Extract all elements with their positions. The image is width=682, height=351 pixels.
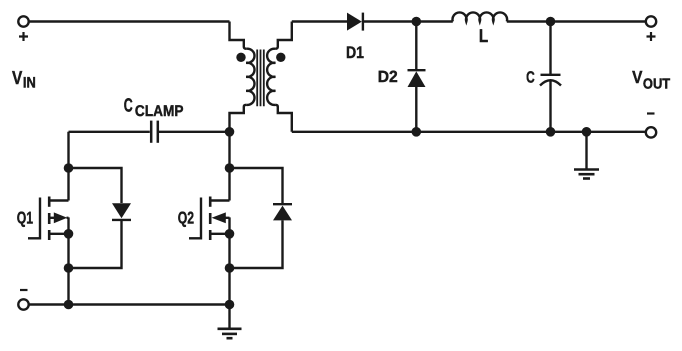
node Q1 source	[64, 229, 74, 239]
transformer T1 secondary winding	[267, 49, 275, 105]
wire primary top jog	[230, 22, 247, 49]
svg-text:OUT: OUT	[643, 76, 670, 92]
wire bottom input rail	[30, 303, 230, 305]
svg-text:V: V	[632, 67, 643, 87]
capacitor C	[540, 22, 561, 132]
svg-text:CLAMP: CLAMP	[135, 103, 184, 120]
node D1/D2 junction	[412, 17, 422, 27]
node L/C junction	[546, 17, 556, 27]
node output ground junction	[582, 127, 592, 137]
inductor L	[453, 12, 508, 21]
wire Q2 drain vertical	[228, 132, 230, 201]
capacitor CCLAMP	[151, 121, 158, 143]
label Q2	[178, 209, 194, 228]
label VOUT	[632, 67, 670, 92]
svg-text:D1: D1	[346, 43, 364, 62]
node Q1 drain / diode top	[64, 163, 74, 173]
label L	[479, 25, 488, 46]
transistor Q1	[28, 197, 69, 241]
svg-text:Q2: Q2	[178, 209, 194, 228]
transistor Q2	[189, 197, 230, 241]
ground input	[218, 305, 242, 339]
svg-text:C: C	[526, 69, 535, 87]
svg-text:V: V	[12, 67, 23, 88]
node Q2 diode bottom	[225, 263, 235, 273]
transformer secondary polarity dot	[276, 53, 285, 62]
diode Q2 body diode	[230, 168, 293, 268]
diode D2	[408, 22, 426, 132]
transformer primary polarity dot	[236, 53, 245, 62]
wire primary bottom jog	[230, 105, 247, 132]
diode Q1 body diode	[69, 168, 132, 268]
node Q1 bottom rail	[64, 300, 74, 310]
input + terminal	[18, 16, 28, 41]
wire secondary top jog	[275, 22, 291, 49]
label CCLAMP	[124, 96, 184, 120]
wire Q1 drain vertical	[67, 132, 69, 201]
svg-text:L: L	[479, 25, 488, 46]
wire secondary bottom jog	[275, 105, 291, 132]
label D1	[346, 43, 364, 62]
transformer T1 core	[257, 50, 264, 107]
label C	[526, 69, 535, 87]
output - terminal	[646, 114, 656, 138]
input - terminal	[18, 290, 28, 310]
label Q1	[17, 209, 33, 228]
node D2 bottom	[412, 127, 422, 137]
svg-text:IN: IN	[23, 75, 36, 92]
wire D1 cathode to L	[363, 20, 453, 22]
diode D1	[347, 13, 363, 31]
node Q2 source	[225, 229, 235, 239]
wire Q1 source vertical	[67, 217, 69, 304]
wire output bottom rail	[292, 131, 646, 133]
label VIN	[12, 67, 36, 92]
svg-text:D2: D2	[378, 68, 398, 86]
node Q2 bottom rail	[225, 300, 235, 310]
label D2	[378, 68, 398, 86]
ground output	[574, 132, 599, 179]
wire secondary top rail to D1	[292, 20, 347, 22]
svg-text:C: C	[124, 96, 133, 117]
node C bottom	[546, 127, 556, 137]
node Q1 diode bottom	[64, 263, 74, 273]
wire clamp left	[69, 131, 150, 133]
wire L to output + terminal	[507, 20, 646, 22]
svg-text:Q1: Q1	[17, 209, 33, 228]
wire top input rail	[30, 20, 230, 22]
output + terminal	[646, 16, 656, 41]
wire Q2 source vertical	[228, 217, 230, 304]
node Q2 drain / diode top	[225, 163, 235, 173]
wire clamp right	[159, 131, 230, 133]
transformer T1 primary winding	[246, 49, 254, 105]
node clamp / Q2 drain junction	[225, 127, 235, 137]
